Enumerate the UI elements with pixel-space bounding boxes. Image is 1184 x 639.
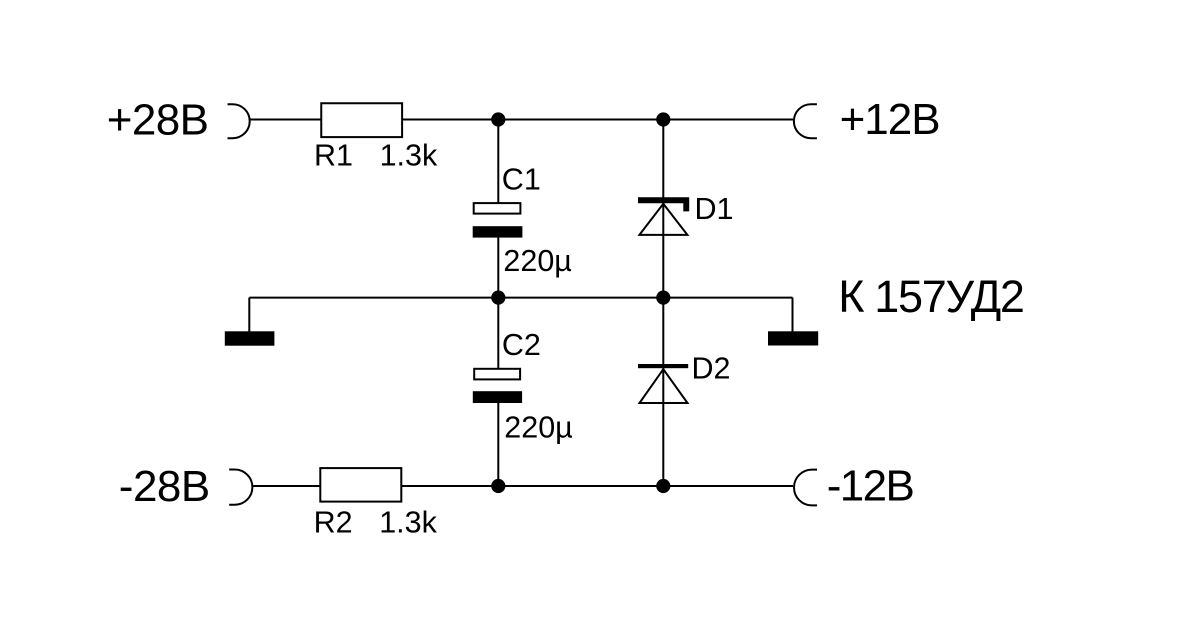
connector pin +28V	[228, 104, 250, 138]
svg-text:-28В: -28В	[119, 462, 210, 511]
wire from R2 to -12V pin (bottom rail)	[401, 485, 793, 487]
connector pin +12V	[794, 104, 817, 138]
resistor R2	[320, 468, 401, 502]
diode D2 triangle	[640, 369, 688, 403]
resistor R1	[321, 103, 402, 137]
wire from +28V pin to R1	[250, 119, 322, 121]
svg-text:К 157УД2: К 157УД2	[838, 271, 1023, 322]
svg-text:+28В: +28В	[107, 96, 209, 145]
connector pin -28V	[229, 470, 252, 505]
svg-text:R1: R1	[314, 138, 353, 172]
wire D2 branch	[662, 298, 664, 486]
svg-text:-12В: -12В	[827, 462, 914, 511]
ground left	[225, 331, 275, 345]
wire C2 top lead	[497, 298, 499, 369]
wire D1 branch	[662, 120, 664, 298]
wire left ground stub	[248, 298, 250, 332]
svg-text:1.3k: 1.3k	[380, 138, 438, 172]
connector pin -12V	[794, 470, 817, 506]
svg-text:220µ: 220µ	[504, 410, 572, 444]
wire from R1 to +12V pin (top rail)	[403, 119, 794, 121]
middle rail wire	[249, 297, 792, 299]
junction node bottom-D2	[656, 479, 670, 493]
ground right	[768, 331, 818, 345]
junction node top-D1	[656, 112, 670, 126]
diode D1 cathode bar with zener hook	[638, 197, 689, 211]
capacitor C2 positive plate	[474, 369, 520, 380]
svg-text:C2: C2	[502, 328, 541, 362]
svg-text:1.3k: 1.3k	[379, 505, 437, 539]
capacitor C2 negative plate	[473, 391, 522, 403]
capacitor C1 negative plate	[473, 226, 523, 237]
wire right ground stub	[792, 298, 794, 332]
diode D2 cathode bar	[638, 364, 688, 368]
svg-text:R2: R2	[314, 505, 353, 539]
diode D1 triangle	[639, 204, 687, 235]
wire C2 bottom lead	[497, 403, 499, 486]
junction node mid-C	[491, 291, 505, 305]
wire from -28V pin to R2	[253, 485, 321, 487]
svg-text:D1: D1	[695, 192, 734, 226]
svg-text:C1: C1	[502, 162, 541, 196]
junction node bottom-C2	[491, 479, 505, 493]
junction node top-C1	[491, 112, 505, 126]
svg-text:D2: D2	[692, 351, 731, 385]
capacitor C1 positive plate	[474, 203, 521, 214]
wire C1 top lead	[497, 120, 499, 204]
junction node mid-D	[656, 291, 670, 305]
wire C1 bottom lead	[497, 238, 499, 298]
svg-text:220µ: 220µ	[503, 244, 571, 278]
svg-text:+12В: +12В	[840, 95, 940, 144]
